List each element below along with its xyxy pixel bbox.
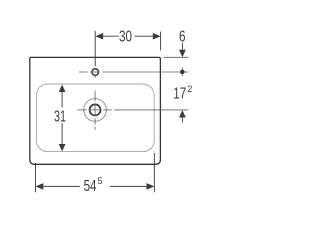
- dimension 17.2: arrow shaft: [181, 117, 183, 123]
- reference dot on tap axis: [180, 70, 185, 75]
- washbasin outer rim outline: [30, 57, 161, 164]
- svg-text:30: 30: [119, 28, 132, 45]
- drain inner circle: [90, 104, 101, 115]
- svg-text:54: 54: [84, 178, 97, 195]
- dimension 30: line left segment: [103, 35, 119, 37]
- dimension 54.5: left arrowhead: [36, 183, 44, 190]
- dimension 31: line lower segment: [61, 123, 63, 144]
- drain vertical center line: [94, 91, 96, 130]
- dot tick above: [181, 68, 183, 70]
- svg-text:31: 31: [54, 109, 66, 126]
- dimension 54.5: right arrowhead: [147, 183, 155, 190]
- dimension 6: down arrowhead: [179, 50, 186, 57]
- top edge extension line right: [164, 56, 189, 58]
- inner basin bowl outline: [37, 84, 155, 152]
- dimension 30: right arrowhead: [153, 33, 161, 40]
- dimension 54.5: line left segment: [43, 185, 80, 187]
- dimension 17.2: up arrowhead: [179, 110, 186, 117]
- dimension 54.5: line right segment: [110, 185, 147, 187]
- svg-text:17: 17: [173, 85, 186, 102]
- drain horizontal center line: [78, 109, 189, 111]
- dimension 30: line right segment: [135, 35, 154, 37]
- dot tick below: [181, 74, 183, 76]
- dimension 54.5: extension line right: [153, 153, 155, 192]
- dimension 31: line upper segment: [61, 92, 63, 108]
- drain outer circle: [84, 99, 107, 122]
- dimension 30: extension line left (tap axis): [94, 31, 96, 67]
- tap hole horizontal center line: [79, 71, 188, 73]
- dimension 31: down arrowhead: [59, 144, 66, 151]
- dimension 31: up arrowhead: [59, 85, 66, 92]
- dimension 6: arrow shaft down: [181, 43, 183, 51]
- dimension 30: extension line right: [160, 32, 162, 51]
- tap hole vertical center line tick below circle: [94, 76, 96, 78]
- dimension 30: left arrowhead: [95, 33, 103, 40]
- svg-text:5: 5: [98, 176, 103, 186]
- dimension 54.5: extension line left: [35, 163, 37, 193]
- tap hole circle: [92, 69, 99, 76]
- svg-text:2: 2: [187, 84, 192, 94]
